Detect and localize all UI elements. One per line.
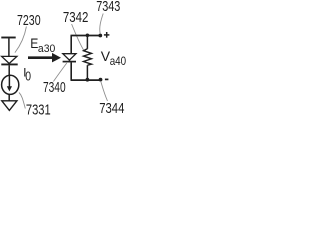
top wire [71, 35, 101, 37]
svg-text:7344: 7344 [99, 101, 124, 117]
diode D40 triangle [63, 54, 76, 60]
leader 7342 [72, 24, 84, 51]
diode D40 apex stub [69, 60, 71, 63]
current source I0 circle [2, 75, 19, 94]
resistor R40 top lead [86, 36, 88, 49]
wire [70, 62, 72, 80]
svg-text:7230: 7230 [17, 13, 41, 29]
junction dot top resistor [86, 34, 90, 38]
wire [8, 94, 10, 100]
diode D30 cathode bar [1, 63, 17, 65]
leader 7344 [101, 82, 108, 101]
leader 7230 [15, 27, 27, 53]
leader 7331 [19, 93, 25, 109]
diode D40 cathode bar [63, 61, 76, 63]
bottom wire [71, 79, 101, 81]
wire [70, 36, 72, 54]
ground arrow terminal [2, 101, 17, 111]
diode D30 top terminal bar [1, 37, 15, 39]
wire [8, 38, 10, 56]
current source arrow [8, 75, 10, 87]
wire [8, 65, 10, 75]
leader 7343 [100, 14, 103, 34]
plus sign [104, 34, 110, 36]
resistor R40 zigzag [84, 49, 92, 66]
leader 7340 [53, 63, 66, 82]
svg-text:7342: 7342 [63, 10, 89, 26]
svg-text:7331: 7331 [26, 103, 51, 119]
minus sign [105, 78, 109, 80]
svg-text:7340: 7340 [43, 80, 66, 96]
diode D30 triangle [2, 56, 17, 63]
svg-text:a30: a30 [38, 43, 55, 55]
svg-text:a40: a40 [110, 54, 127, 68]
junction dot bottom resistor [86, 78, 90, 82]
node terminal dot top right [98, 34, 102, 38]
node terminal dot bottom right [99, 78, 103, 82]
svg-text:7343: 7343 [96, 0, 120, 15]
arrow E_a30 [28, 56, 52, 59]
svg-text:0: 0 [25, 69, 31, 84]
resistor R40 bottom lead [86, 65, 88, 80]
